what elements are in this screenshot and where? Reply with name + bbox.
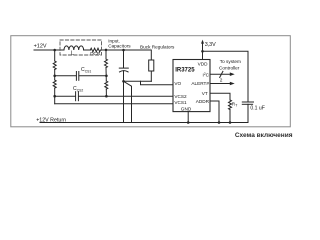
wire left branch upper — [54, 50, 56, 61]
op-amp IC U1 IR3725 box — [173, 60, 210, 112]
wire VT to RT — [210, 93, 230, 100]
svg-text:IR3725: IR3725 — [175, 68, 195, 74]
wire I2C bus arrow — [210, 71, 235, 77]
svg-text:+12V: +12V — [34, 44, 47, 50]
svg-text:+12V Return: +12V Return — [36, 118, 66, 124]
svg-text:CCS1: CCS1 — [81, 67, 91, 73]
svg-text:GND: GND — [181, 106, 192, 111]
wire main +12V rail — [34, 49, 64, 51]
buck regulator load box — [149, 60, 154, 71]
resistor RT — [229, 100, 232, 110]
svg-text:Buck Regulators: Buck Regulators — [140, 44, 175, 49]
node junction dot B (L output) — [105, 49, 108, 52]
node dot GND rail — [187, 121, 190, 124]
wire VCS1 net to IC — [55, 103, 173, 105]
svg-text:VCS1: VCS1 — [174, 100, 187, 105]
resistor right lower — [105, 81, 108, 89]
wire +12V return rail — [40, 122, 248, 124]
wire ALERT# arrow — [210, 82, 235, 86]
node dot 3.3V — [201, 50, 204, 53]
capacitor input (polarized) — [119, 68, 128, 72]
svg-text:CCS2: CCS2 — [73, 86, 83, 92]
svg-text:ALERT#: ALERT# — [191, 81, 209, 86]
power 3.3V arrow — [201, 40, 204, 52]
wire rail between DCR and buck corner — [101, 50, 151, 60]
node dot left CCS2 — [53, 95, 56, 98]
node dot RT rail — [229, 121, 232, 124]
svg-text:To system: To system — [220, 59, 241, 64]
resistor RCS2 lower-left — [53, 80, 56, 88]
wire CCS1 net left — [55, 75, 76, 77]
wire input cap top lead — [123, 50, 125, 68]
node dot ADDR rail — [218, 121, 221, 124]
dashed box around inductor — [60, 40, 102, 55]
wire CCS1 net right — [79, 75, 107, 77]
svg-text:RT: RT — [232, 101, 237, 107]
svg-text:VO: VO — [174, 81, 181, 86]
wire RT to rail — [229, 110, 231, 123]
svg-text:2: 2 — [220, 78, 223, 84]
svg-text:VCS2: VCS2 — [174, 94, 187, 99]
wire VCS2 net to IC — [79, 95, 174, 97]
wire 3.3V to bypass cap — [203, 51, 249, 102]
resistor DCR — [90, 48, 100, 52]
wire input cap bottom lead — [123, 71, 125, 82]
svg-text:Controller: Controller — [219, 65, 240, 70]
svg-text:ADDR: ADDR — [196, 99, 210, 104]
wire diagonal to second drop — [124, 82, 132, 123]
node dot right CCS1 — [105, 75, 108, 78]
wire GND pin drop — [187, 112, 189, 123]
wire input cap drop to return rail — [123, 81, 125, 122]
wire ground link to buck — [124, 80, 152, 82]
svg-text:Capacitors: Capacitors — [108, 43, 131, 48]
border frame — [11, 36, 291, 127]
svg-text:I2C: I2C — [203, 72, 210, 77]
wire VDD feed — [202, 51, 204, 59]
svg-text:0.1 uF: 0.1 uF — [250, 105, 264, 111]
capacitor CCS2 — [76, 92, 79, 101]
resistor RCS1 upper-left — [53, 61, 56, 70]
wire left branch lower to VCS1 corner — [54, 88, 56, 104]
wire left branch mid — [54, 70, 56, 81]
wire buck bottom lead — [150, 71, 152, 81]
wire ADDR to rail — [210, 101, 219, 123]
inductor L1 — [64, 46, 84, 50]
wire right branch bottom — [105, 89, 107, 96]
svg-text:VT: VT — [202, 91, 208, 96]
capacitor CCS1 — [76, 72, 78, 81]
wire right branch upper — [105, 50, 107, 59]
wire VO link — [141, 81, 174, 85]
svg-text:L: L — [71, 51, 74, 57]
node dot left CCS1 — [53, 75, 56, 78]
wire VCS2 net left — [55, 95, 76, 97]
svg-text:VDD: VDD — [198, 62, 209, 67]
node junction dot C (input cap tap) — [122, 49, 125, 52]
node dot right CCS2 — [105, 95, 108, 98]
node junction dot A (+12V / RCS1) — [53, 49, 56, 52]
wire right branch mid — [105, 68, 107, 81]
svg-text:3,3V: 3,3V — [205, 42, 216, 48]
svg-text:Схема включения: Схема включения — [235, 132, 293, 139]
wire cap to rail — [247, 104, 249, 122]
wire between L and DCR — [84, 49, 91, 51]
capacitor 0.1uF bypass — [242, 102, 253, 104]
node dot input cap ground — [122, 80, 125, 83]
resistor right upper — [105, 59, 108, 68]
